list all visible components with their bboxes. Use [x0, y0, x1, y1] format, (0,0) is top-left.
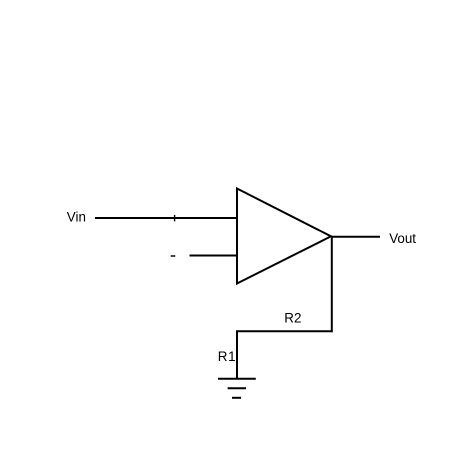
wire inverting input [190, 255, 238, 257]
ground [218, 379, 256, 398]
op-amp plus marker [174, 215, 176, 222]
wire non-inverting input [95, 217, 237, 219]
svg-text:R1: R1 [218, 349, 236, 364]
wire feedback horizontal R2 [236, 330, 333, 332]
wire R1 vertical [236, 331, 238, 379]
op-amp minus marker [171, 255, 176, 257]
svg-text:Vout: Vout [389, 231, 416, 246]
svg-text:R2: R2 [284, 310, 301, 325]
op-amp U1 [237, 189, 331, 284]
wire feedback vertical [331, 237, 333, 332]
wire output [331, 236, 380, 238]
svg-text:Vin: Vin [67, 210, 86, 225]
